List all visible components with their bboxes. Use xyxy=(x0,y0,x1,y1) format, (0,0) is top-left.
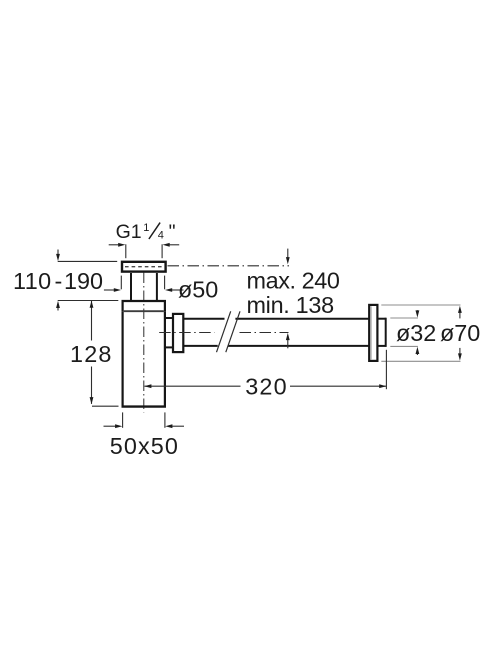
110-190 bottom reference line xyxy=(58,300,119,302)
G dimension extension lines xyxy=(125,244,127,258)
50x50 right arrow xyxy=(172,425,184,427)
50x50 extension lines xyxy=(122,412,124,427)
svg-text:50x50: 50x50 xyxy=(110,433,179,459)
128 dimension line segments xyxy=(91,301,93,341)
320 dimension line xyxy=(145,385,241,387)
vertical inlet pipe xyxy=(130,273,132,301)
110-190 bottom arrow xyxy=(57,307,59,311)
G dimension left arrow xyxy=(109,244,120,246)
wall-side pipe stub xyxy=(377,318,385,320)
svg-text:-: - xyxy=(55,268,63,294)
110-190 top reference line xyxy=(58,260,117,262)
svg-text:max. 240: max. 240 xyxy=(247,268,340,294)
svg-text:320: 320 xyxy=(245,374,288,400)
thread dashed line inside flange xyxy=(125,266,163,268)
svg-text:ø70: ø70 xyxy=(440,320,480,346)
128 top arrow xyxy=(90,301,94,308)
wall flange inner shading line xyxy=(370,306,372,359)
svg-text:4: 4 xyxy=(158,230,164,242)
o70 bottom arrow xyxy=(459,348,461,354)
o32 bottom arrow xyxy=(416,353,418,355)
svg-text:ø50: ø50 xyxy=(178,277,218,303)
o70 dimension extension lines xyxy=(381,304,460,306)
max/min down arrow xyxy=(287,249,289,259)
320 right extension line xyxy=(385,350,387,389)
o50 dimension extension lines xyxy=(120,276,122,290)
svg-text:1: 1 xyxy=(143,222,149,234)
svg-text:110: 110 xyxy=(13,268,52,294)
vertical centerline xyxy=(143,273,145,413)
nut bottom line xyxy=(124,310,164,312)
320 left arrow xyxy=(144,384,151,388)
svg-text:190: 190 xyxy=(64,268,103,294)
128 bottom arrow xyxy=(90,397,94,404)
wall flange xyxy=(369,305,377,361)
pipe centerline dash-dot xyxy=(159,332,214,334)
trap body top nut xyxy=(123,301,165,311)
flange axis dash-dot line xyxy=(168,265,290,267)
top flange (rosette) xyxy=(122,262,166,272)
svg-text:G1: G1 xyxy=(116,221,142,243)
G dimension right arrow xyxy=(169,244,180,246)
128 bottom reference line xyxy=(92,405,119,407)
110-190 top arrow xyxy=(57,250,59,256)
outlet compression nut xyxy=(173,314,183,352)
horizontal outlet pipe (with break gap) xyxy=(183,318,224,320)
svg-text:ø32: ø32 xyxy=(396,320,436,346)
max/min up arrow xyxy=(287,340,289,349)
o50 right arrow xyxy=(171,289,183,291)
o32 top arrow xyxy=(416,310,418,311)
50x50 left arrow xyxy=(104,425,116,427)
pipe break symbol xyxy=(217,311,231,352)
outlet spigot from body xyxy=(166,317,173,319)
o70 top arrow xyxy=(459,312,461,318)
o32 dimension extension lines xyxy=(390,317,418,319)
trap body (50x50) xyxy=(121,311,123,406)
320 right arrow xyxy=(379,384,386,388)
svg-text:128: 128 xyxy=(70,341,113,367)
o50 left arrow xyxy=(104,289,115,291)
svg-text:min. 138: min. 138 xyxy=(247,292,334,318)
svg-text:": " xyxy=(169,221,176,243)
